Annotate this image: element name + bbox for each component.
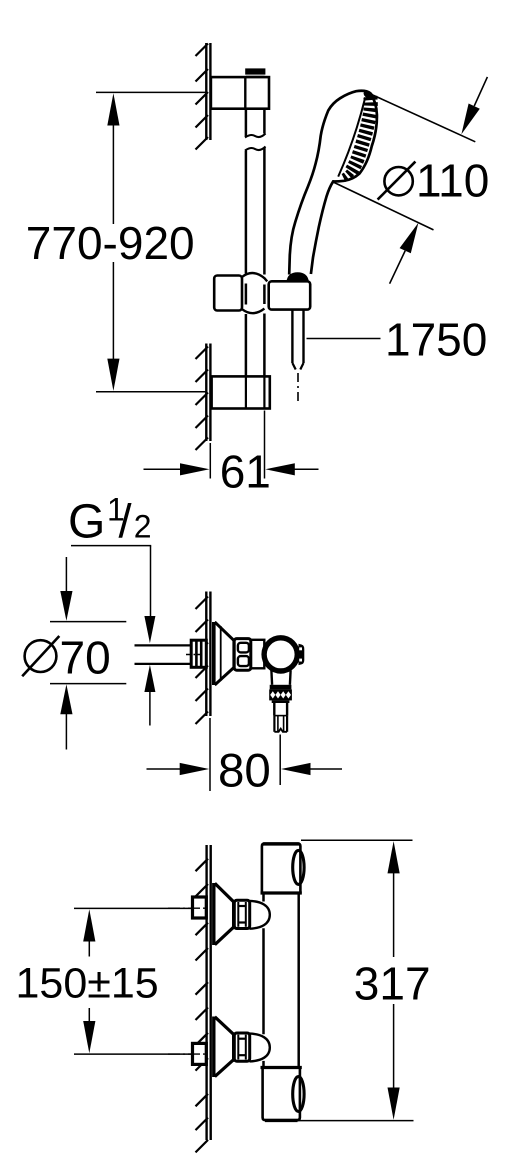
escutcheon upper: cone [215, 883, 233, 901]
dim 80 line right + arrow [311, 768, 343, 770]
escutcheon lower: base [212, 1017, 215, 1078]
rail main segment [245, 151, 248, 274]
supply pipe [135, 644, 193, 646]
dim text Ø70 [22, 636, 59, 676]
glider clamp curves [242, 273, 267, 281]
rail through bottom bracket [245, 376, 247, 408]
wall hatching top-1 [196, 44, 209, 150]
upper union nut [234, 900, 249, 928]
union nut middle [234, 639, 251, 671]
svg-text:80: 80 [218, 744, 271, 797]
hose length leader 1750 [307, 338, 381, 340]
hand shower outline [289, 91, 377, 275]
lower supply square [193, 1043, 207, 1064]
outlet neck [270, 671, 273, 685]
spray face top dark corner [362, 89, 375, 100]
G1/2 arrow up below pipe [144, 665, 155, 692]
rail upper segment with break [245, 109, 248, 137]
bottom handle ellipse [293, 1077, 304, 1112]
wall top-1 [205, 43, 207, 140]
dim 770-920 line [112, 120, 114, 224]
dim Ø110 arrow upper [474, 77, 487, 106]
svg-text:317: 317 [354, 957, 431, 1009]
glider left block [214, 276, 242, 311]
thermostat body tube [262, 893, 265, 902]
escutcheon middle: base [212, 622, 216, 685]
wall hatching top-2 [196, 347, 209, 451]
knurled nut [269, 689, 292, 700]
svg-text:G: G [68, 496, 105, 549]
outlet collar dark band [270, 685, 292, 690]
wall hatching middle [196, 597, 209, 725]
dim 317 line + arrows [393, 870, 395, 957]
dim Ø110 tangent line upper [371, 94, 475, 142]
wall bottom [205, 845, 207, 1140]
dim Ø110 arrow lower [390, 251, 406, 284]
lower union nut [234, 1033, 249, 1061]
dim 61 line left + arrow [144, 468, 182, 470]
outlet tube [273, 703, 275, 716]
G1/2 arrow down at pipe top [144, 616, 155, 643]
escutcheon middle: cone [215, 622, 234, 640]
svg-text:770-920: 770-920 [26, 217, 195, 269]
handle end cap [287, 272, 309, 281]
dim Ø70 arrows [65, 557, 67, 592]
wall bracket bottom [212, 376, 270, 408]
svg-text:110: 110 [416, 154, 489, 206]
rail through glider [245, 284, 248, 305]
svg-text:150±15: 150±15 [16, 960, 159, 1008]
escutcheon lower: cone [215, 1017, 233, 1034]
dim Ø110 tangent line lower [332, 182, 433, 230]
svg-text:70: 70 [60, 631, 111, 683]
hose upper [291, 310, 293, 363]
lower supply centerline [168, 1053, 208, 1055]
hose centerline dash-dot [297, 373, 299, 403]
svg-text:61: 61 [220, 446, 271, 498]
wall middle [205, 592, 207, 717]
upper ball bulge [250, 901, 270, 929]
dim 61 line right + arrow [294, 468, 319, 470]
dim 317 extension lines [301, 839, 413, 841]
dim 61 extension lines [209, 443, 211, 479]
escutcheon upper: base [212, 883, 215, 945]
dim text Ø110 [378, 162, 416, 200]
spray face stipple [350, 97, 371, 173]
hose connector [273, 716, 275, 732]
top handle ellipse [293, 850, 304, 884]
thermostat body bottom cap [261, 1066, 302, 1069]
union cylinder [251, 640, 264, 669]
dim 80 line left + arrow [147, 768, 182, 770]
wall hatching bottom [196, 859, 209, 1153]
dim 770-920 arrows [107, 93, 119, 125]
wall top-2 [205, 344, 207, 442]
spray face inner edge [338, 97, 365, 176]
dim 80 extension lines [209, 718, 211, 791]
valve right tab [299, 644, 305, 665]
wall bracket top [211, 77, 269, 109]
glider right block (hose holder) [269, 281, 311, 309]
dim 150±15 arrows [88, 941, 90, 957]
upper supply centerline [168, 907, 208, 909]
upper supply square [193, 897, 207, 918]
dim 770-920 extension lines [96, 91, 206, 93]
pipe hex head [191, 640, 206, 667]
lower ball bulge [250, 1034, 270, 1062]
dim 150±15 extension lines [74, 907, 193, 909]
dim Ø70 extension lines [50, 621, 126, 623]
svg-text:/: / [119, 495, 133, 548]
G1/2 leader line [71, 545, 151, 547]
svg-text:1750: 1750 [385, 314, 487, 366]
rail top cap [245, 68, 265, 74]
valve body circle [264, 638, 297, 671]
pipe centerline [186, 654, 208, 656]
svg-text:2: 2 [134, 509, 152, 545]
thermostat body top cap [262, 844, 301, 894]
